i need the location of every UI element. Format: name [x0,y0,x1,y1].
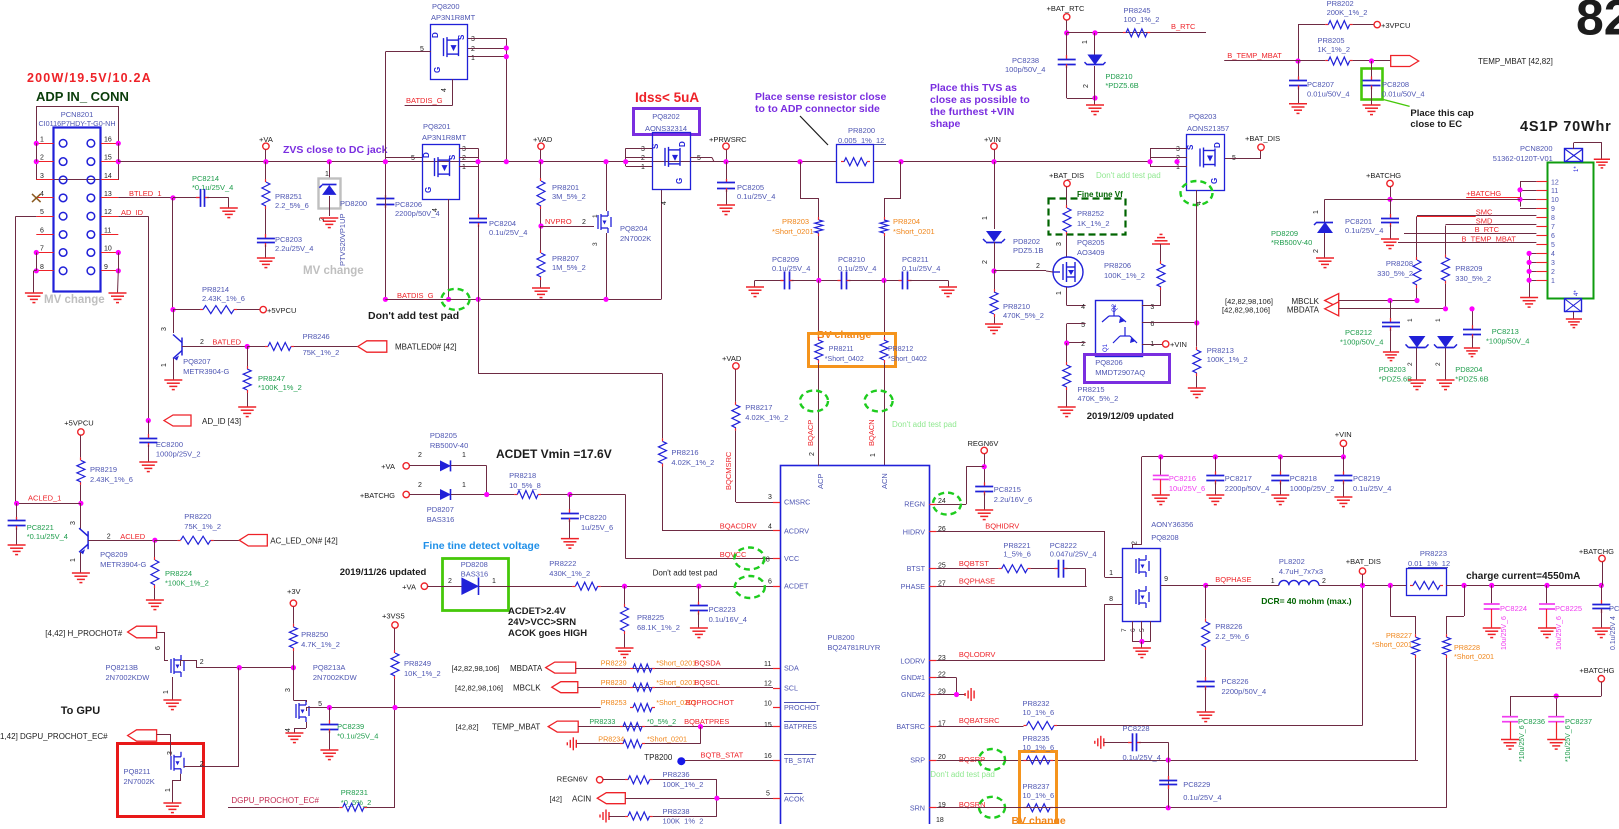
svg-text:MV change: MV change [303,265,364,277]
svg-text:BTLED_1: BTLED_1 [129,189,162,198]
svg-text:AC_LED_ON# [42]: AC_LED_ON# [42] [270,536,338,545]
svg-text:REGN6V: REGN6V [557,775,588,784]
svg-text:100_1%_2: 100_1%_2 [1124,15,1160,24]
svg-text:ACDET Vmin =17.6V: ACDET Vmin =17.6V [496,447,612,461]
svg-text:200K_1%_2: 200K_1%_2 [1327,8,1368,17]
svg-text:BTST: BTST [907,564,926,573]
node NVPRO [538,223,543,228]
wire ACDET to IC [601,586,773,588]
svg-text:BQHIDRV: BQHIDRV [985,522,1019,531]
ground below connector right [109,293,127,303]
connector arrow AD_ID [146,418,151,423]
svg-text:PC8208: PC8208 [1382,80,1409,89]
wire batchg bundle [1520,182,1522,207]
svg-text:D: D [678,141,687,147]
svg-text:close as possible to: close as possible to [930,94,1030,106]
svg-text:TEMP_MBAT: TEMP_MBAT [492,723,540,732]
svg-text:To GPU: To GPU [61,705,101,717]
wire after sense [1446,585,1602,587]
wire GND pins [936,677,956,679]
svg-text:Don't add test pad: Don't add test pad [930,770,995,779]
ground PQ8208 [1133,648,1151,658]
svg-text:1*: 1* [1574,166,1580,172]
svg-text:2.2_5%_6: 2.2_5%_6 [275,201,309,210]
wire ACLED [88,540,155,542]
test-pad ellipse PQ8203 pin4 [1181,181,1213,205]
ground PC8216 [1152,495,1170,505]
svg-text:2019/12/09 updated: 2019/12/09 updated [1087,411,1174,422]
svg-text:+3VS5: +3VS5 [382,612,405,621]
mounting hole bottom [1565,299,1582,312]
svg-text:+BATCHG: +BATCHG [1466,189,1501,198]
svg-text:PD8205: PD8205 [430,431,457,440]
svg-text:1_5%_6: 1_5%_6 [1003,550,1031,559]
svg-text:1: 1 [462,482,466,489]
svg-text:PR8201: PR8201 [552,183,579,192]
wire BTST down to phase [1085,569,1087,587]
svg-text:7: 7 [1121,628,1128,632]
svg-text:PR8235: PR8235 [1023,734,1050,743]
svg-text:82: 82 [1576,0,1619,46]
svg-text:MBDATA: MBDATA [510,664,543,673]
svg-text:Q1: Q1 [1103,343,1109,352]
svg-text:*0.1u/25V_4: *0.1u/25V_4 [192,183,233,192]
svg-text:B_RTC: B_RTC [1475,225,1500,234]
svg-text:PC: PC [1609,604,1619,613]
svg-text:+BATCHG: +BATCHG [1579,547,1614,556]
connector arrow ACIN [597,793,625,804]
wire SMD [1446,224,1537,226]
ground mounting bottom [1566,319,1582,328]
svg-text:10u/25V_6: 10u/25V_6 [1501,616,1508,650]
wire PQ8202 left pins loop [626,148,652,150]
svg-text:*0.1u/25V_4: *0.1u/25V_4 [337,732,378,741]
svg-text:PR8219: PR8219 [90,465,117,474]
wire BATPRES [578,726,773,728]
svg-text:4.7uH_7x7x3: 4.7uH_7x7x3 [1279,567,1323,576]
ground PC8217 [1206,495,1224,505]
svg-text:BQTB_STAT: BQTB_STAT [701,751,744,760]
wire PQ8213A drain to prochot row [306,708,308,712]
svg-text:1K_1%_2: 1K_1%_2 [1077,219,1110,228]
svg-text:*100p/50V_4: *100p/50V_4 [1486,337,1529,346]
svg-text:*Short_0402: *Short_0402 [888,356,927,363]
svg-text:2: 2 [1551,269,1555,276]
svg-text:2.2u/25V_4: 2.2u/25V_4 [275,244,313,253]
svg-text:100K_1%_2: 100K_1%_2 [1207,355,1248,364]
ground PC8218 [1271,495,1289,505]
ground PQ8209 [72,573,90,583]
svg-text:*0_5%_2: *0_5%_2 [647,717,676,726]
svg-text:1: 1 [462,164,466,171]
svg-text:to to ADP connector side: to to ADP connector side [755,103,880,115]
svg-text:1u/25V_6: 1u/25V_6 [581,523,613,532]
resistor PR8238 row [600,810,609,823]
svg-text:10_5%_8: 10_5%_8 [509,481,541,490]
svg-text:PC8211: PC8211 [902,255,929,264]
svg-text:PQ8200: PQ8200 [432,2,460,11]
svg-text:2019/11/26 updated: 2019/11/26 updated [340,567,427,578]
svg-text:PR8252: PR8252 [1077,209,1104,218]
svg-text:PR8203: PR8203 [782,217,809,226]
IC right pin stubs [929,504,936,506]
wire BATSRC to BAT_DIS node [1057,725,1363,727]
svg-text:7: 7 [40,246,44,253]
ground PD8210 [1086,105,1104,115]
wire pins10-9 to ground [118,253,120,271]
svg-text:PHASE: PHASE [901,582,926,591]
svg-text:Place sense resistor close: Place sense resistor close [755,91,886,103]
svg-text:PC8214: PC8214 [192,174,219,183]
svg-text:PQ8201: PQ8201 [423,122,451,131]
connector arrow TEMP_MBAT 2 [548,721,578,732]
svg-text:3M_5%_2: 3M_5%_2 [552,192,586,201]
svg-text:2.2u/16V_6: 2.2u/16V_6 [994,495,1032,504]
svg-text:MBATLED0# [42]: MBATLED0# [42] [395,343,457,352]
svg-text:ZVS close to DC jack: ZVS close to DC jack [283,144,388,156]
svg-text:0.1u/25V_4: 0.1u/25V_4 [1345,226,1383,235]
svg-text:10u/25V_6: 10u/25V_6 [1556,616,1563,650]
PQ8208 source pins [1132,621,1134,641]
svg-text:PR8253: PR8253 [601,698,627,707]
ground GND#2 [965,688,974,701]
wire B_TEMP_MBAT 2 [1398,242,1536,244]
svg-text:0.1u/25V_4: 0.1u/25V_4 [489,228,527,237]
svg-text:PQ8211: PQ8211 [124,767,151,776]
ground PR8225 [616,648,634,658]
wire REGN pin to node [936,504,966,506]
svg-text:METR3904-G: METR3904-G [100,560,146,569]
connector PCN8201 outer box [37,107,119,180]
svg-text:DGPU_PROCHOT_EC#: DGPU_PROCHOT_EC# [231,796,319,805]
svg-text:0.1u/25V_4: 0.1u/25V_4 [1123,753,1161,762]
svg-text:TP8200: TP8200 [644,753,673,762]
svg-text:430K_1%_2: 430K_1%_2 [549,569,590,578]
svg-text:G: G [424,187,433,193]
svg-text:BAS316: BAS316 [427,515,455,524]
svg-text:12: 12 [104,209,112,216]
highlight red box PQ8211 [118,744,204,817]
ground PC8236 [1501,740,1519,750]
svg-text:ACDET>2.4V: ACDET>2.4V [508,606,566,617]
svg-text:1: 1 [1271,578,1275,585]
svg-text:PD8210: PD8210 [1105,72,1132,81]
svg-text:PC8217: PC8217 [1225,474,1252,483]
svg-text:PR8234: PR8234 [598,734,624,743]
svg-text:PR8217: PR8217 [745,403,772,412]
svg-text:+3VPCU: +3VPCU [1381,21,1410,30]
test-pad ellipse ACN [865,391,893,412]
svg-text:7: 7 [1551,224,1555,231]
wire pins1-2 tie [36,143,38,161]
svg-text:PQ8213A: PQ8213A [313,663,346,672]
svg-text:16: 16 [104,136,112,143]
capacitor PC8208 with green box [1362,69,1383,100]
wire LODRV [936,660,1105,662]
svg-text:1000p/25V_2: 1000p/25V_2 [1290,484,1335,493]
svg-text:BQ24781RUYR: BQ24781RUYR [827,643,881,652]
svg-text:PR8212: PR8212 [888,346,913,353]
svg-text:10K_1%_2: 10K_1%_2 [404,669,441,678]
svg-text:2: 2 [40,155,44,162]
svg-text:PC8218: PC8218 [1290,474,1317,483]
svg-text:PR8245: PR8245 [1124,6,1151,15]
mounting hole top [1565,149,1583,162]
wire PQ8200 pin5 left [385,51,431,53]
svg-text:PR8213: PR8213 [1207,346,1234,355]
kelvin tap left PR8227 [1390,585,1392,616]
wire ACOK [625,798,773,800]
svg-text:4.02K_1%_2: 4.02K_1%_2 [671,458,714,467]
connector arrow TEMP_MBAT [1391,56,1419,67]
svg-text:*PDZ5.6B: *PDZ5.6B [1105,81,1138,90]
svg-text:BATPRES: BATPRES [784,722,817,731]
svg-text:PR8222: PR8222 [549,559,576,568]
svg-text:MMDT2907AQ: MMDT2907AQ [1095,368,1145,377]
svg-text:BATDIS_G: BATDIS_G [397,291,434,300]
svg-text:9: 9 [1551,206,1555,213]
svg-text:G: G [675,178,684,184]
svg-text:ACDRV: ACDRV [784,527,809,536]
svg-text:PD8204: PD8204 [1455,365,1482,374]
wire NVPRO to PQ8204 gate [541,226,594,228]
svg-text:MBDATA: MBDATA [1287,306,1320,315]
svg-text:2: 2 [1036,263,1040,270]
svg-text:BQPHASE: BQPHASE [959,577,995,586]
wire MBCLK [1339,300,1417,302]
svg-text:3: 3 [285,688,292,692]
svg-text:10: 10 [104,246,112,253]
highlight box PQ8202 [634,109,700,135]
svg-text:1: 1 [325,171,329,178]
svg-text:4.7K_1%_2: 4.7K_1%_2 [301,640,340,649]
svg-text:Don't add test pad: Don't add test pad [892,420,957,429]
svg-text:BQBATPRES: BQBATPRES [684,717,729,726]
svg-text:BATSRC: BATSRC [896,722,925,731]
svg-text:2: 2 [1083,84,1090,88]
svg-text:8: 8 [40,264,44,271]
ground PC8237 [1547,740,1565,750]
diode PD8200 with gray box [327,159,332,164]
ground PC8208 [1363,105,1381,115]
svg-text:*0.1u/25V_4: *0.1u/25V_4 [27,532,68,541]
connector PCN8200 pins [1536,181,1547,183]
svg-text:1: 1 [161,363,168,367]
wire phase to bat_dis [1206,585,1279,587]
svg-text:2: 2 [1407,362,1414,366]
wire PHASE [936,586,1086,588]
svg-text:2.43K_1%_6: 2.43K_1%_6 [90,475,133,484]
wire BATLED [182,346,247,348]
svg-text:3: 3 [40,173,44,180]
connector arrows MBCLK MBDATA [1325,294,1339,308]
svg-text:6: 6 [1130,628,1137,632]
svg-text:*Short_0201: *Short_0201 [656,678,696,687]
svg-text:16: 16 [764,753,772,760]
svg-text:GND#2: GND#2 [901,690,925,699]
svg-text:PR8225: PR8225 [637,613,664,622]
wire PQ8205 to PQ8206 pin4 [1066,287,1068,306]
svg-text:PC8204: PC8204 [489,219,516,228]
svg-text:D: D [422,152,431,158]
wire +VIN down [994,162,996,229]
ground PC8219 [1334,497,1352,507]
kelvin tap right PR8228 [1464,585,1466,616]
svg-text:1: 1 [462,452,466,459]
svg-text:BATDIS_G: BATDIS_G [406,96,443,105]
svg-text:+VIN: +VIN [984,135,1001,144]
svg-text:LODRV: LODRV [900,657,925,666]
svg-text:4.02K_1%_2: 4.02K_1%_2 [745,413,788,422]
wire gate from PD8202 node [1046,271,1053,272]
svg-text:PC8220: PC8220 [580,513,607,522]
ground PC8209 left [746,287,764,297]
ground PC8214 [220,208,238,218]
svg-text:PR8204: PR8204 [893,217,920,226]
connector arrow MBDATA 2 [546,662,576,673]
svg-text:14: 14 [104,173,112,180]
wire pins 4..1 bundle to ground [1529,253,1531,297]
svg-text:+VAD: +VAD [722,354,742,363]
svg-text:PR8207: PR8207 [552,254,579,263]
ground PD8204 [1437,380,1455,390]
highlight box PQ8206 [1085,355,1170,383]
IC left pin stubs [773,502,780,504]
svg-text:*100K_1%_2: *100K_1%_2 [165,579,209,588]
test-pad ellipse ACDET [735,576,765,598]
svg-text:PR8236: PR8236 [663,770,690,779]
svg-text:PR8206: PR8206 [1104,261,1131,270]
svg-text:6: 6 [155,646,162,650]
ground PC8211 right [939,287,957,297]
wire PQ8206 pins5/2 left [1067,323,1086,325]
svg-text:PD8208: PD8208 [461,560,488,569]
ground PR8215 [1058,407,1076,417]
wire PQ8201 pin4 down [448,199,450,299]
svg-text:PCN8201: PCN8201 [61,110,94,119]
svg-text:10: 10 [1551,197,1559,204]
svg-text:PR8223: PR8223 [1420,549,1447,558]
svg-text:PD8209: PD8209 [1271,229,1298,238]
ground PD8200 [320,218,338,228]
svg-text:2: 2 [107,534,111,541]
wire pins7-8 to ground [36,253,38,271]
ground PQ8213B [163,700,181,710]
svg-text:5: 5 [411,155,415,162]
svg-text:PC8223: PC8223 [709,605,736,614]
svg-text:BQACP: BQACP [806,420,815,446]
svg-text:3: 3 [592,242,599,246]
svg-text:BQPROCHOT: BQPROCHOT [686,698,735,707]
svg-text:PC8216: PC8216 [1169,474,1196,483]
svg-text:+BATCHG: +BATCHG [1579,666,1614,675]
svg-text:AONY36356: AONY36356 [1151,520,1193,529]
ground PD8203 [1408,380,1426,390]
svg-text:PR8215: PR8215 [1077,385,1104,394]
svg-text:3: 3 [161,327,168,331]
ground below connector left [25,293,43,303]
svg-text:PR8209: PR8209 [1455,264,1482,273]
svg-text:*Short_0402: *Short_0402 [825,356,864,363]
svg-text:PC8237: PC8237 [1565,717,1592,726]
ground PC8226 [1197,712,1215,722]
svg-text:3: 3 [768,494,772,501]
svg-text:PR8249: PR8249 [404,659,431,668]
svg-text:*100p/50V_4: *100p/50V_4 [1340,338,1383,347]
wire +3VPCU riser [1298,25,1300,61]
svg-text:METR3904-G: METR3904-G [183,367,229,376]
test-pad ellipse VCC [734,548,764,570]
svg-text:PC8205: PC8205 [737,183,764,192]
svg-text:20: 20 [938,754,946,761]
svg-text:3: 3 [70,521,77,525]
svg-text:0.1u/25V_4: 0.1u/25V_4 [1353,484,1391,493]
svg-text:*PDZ5.6B: *PDZ5.6B [1379,375,1412,384]
svg-text:2: 2 [448,578,452,585]
wire H_PROCHOT to gate [157,632,165,634]
svg-text:PR8228: PR8228 [1454,643,1480,652]
svg-text:470K_5%_2: 470K_5%_2 [1077,394,1118,403]
wire PQ8200 right pins [468,38,506,40]
svg-text:51362-0120T-V01: 51362-0120T-V01 [1493,154,1553,163]
svg-text:2: 2 [471,46,475,53]
svg-text:2: 2 [200,339,204,346]
svg-text:PQ8213B: PQ8213B [106,663,139,672]
svg-text:PR8208: PR8208 [1386,259,1413,268]
wire PQ8204 drain to bus [606,162,608,211]
svg-text:1: 1 [592,214,599,218]
wire PQ8206 pin6 right [1142,322,1197,324]
svg-text:0.047u/25V_4: 0.047u/25V_4 [1050,550,1097,559]
leader line [800,116,828,145]
svg-text:ACLED: ACLED [120,532,146,541]
highlight dashed box fine tune [1049,199,1126,235]
svg-text:1: 1 [40,136,44,143]
svg-text:BATLED: BATLED [212,338,241,347]
svg-text:Place this cap: Place this cap [1410,108,1474,119]
svg-text:EC8200: EC8200 [156,440,183,449]
svg-text:charge current=4550mA: charge current=4550mA [1466,571,1580,582]
wire ACLED_1 [16,503,81,505]
svg-text:75K_1%_2: 75K_1%_2 [184,522,221,531]
wire BATDIS_G bottom bus [385,299,661,301]
svg-text:1: 1 [1313,210,1320,214]
svg-text:0.1u/25V 4: 0.1u/25V 4 [1610,616,1617,650]
svg-text:MBCLK: MBCLK [513,684,541,693]
svg-text:HIDRV: HIDRV [903,527,925,536]
wire PQ8202 pin4 riser [661,190,663,299]
test-pad ellipse ACP [800,391,828,412]
ground PD8209 [1316,258,1334,268]
svg-text:2: 2 [418,482,422,489]
svg-text:5: 5 [1551,242,1555,249]
svg-text:1: 1 [870,453,877,457]
wire PQ8204 source to BATDIS [606,233,608,299]
svg-text:PR8214: PR8214 [202,285,229,294]
svg-text:Fine tine detect voltage: Fine tine detect voltage [423,540,540,552]
wire PQ8206 pin1 to +VIN term [1142,344,1163,346]
svg-text:PCN8200: PCN8200 [1520,144,1553,153]
svg-text:0.1u/25V_4: 0.1u/25V_4 [737,192,775,201]
svg-text:PC8203: PC8203 [275,235,302,244]
svg-text:SRP: SRP [910,756,925,765]
svg-text:PL8202: PL8202 [1279,557,1305,566]
svg-text:6: 6 [40,228,44,235]
svg-text:SRN: SRN [910,803,925,812]
svg-text:PROCHOT: PROCHOT [784,703,821,712]
ground PQ8207 [164,380,182,390]
svg-text:[42,82,98,106]: [42,82,98,106] [452,664,500,673]
